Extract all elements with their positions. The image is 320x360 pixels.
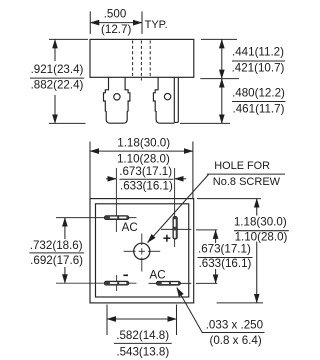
svg-text:.732(18.6): .732(18.6) <box>30 239 83 252</box>
dimension .732/.692 (left, tab row spacing) <box>29 218 84 284</box>
svg-text:1.18(30.0): 1.18(30.0) <box>234 215 287 228</box>
centerline tab TR horizontal <box>161 228 191 230</box>
terminal T3 (rear tab, edge-on) <box>174 77 178 122</box>
dimension .582/.543 (bottom) <box>107 305 177 344</box>
svg-text:AC: AC <box>150 269 166 282</box>
inner case outline <box>96 204 189 297</box>
terminal T2 hole <box>164 93 170 99</box>
mounting hole centerlines <box>124 234 161 272</box>
plus label <box>163 235 170 242</box>
svg-text:TYP.: TYP. <box>145 19 168 31</box>
svg-text:.500: .500 <box>104 7 127 20</box>
leader: HOLE FOR No.8 SCREW <box>148 174 285 243</box>
terminal T2 (right faston tab, front) <box>153 77 174 123</box>
svg-text:.921(23.4): .921(23.4) <box>31 63 84 76</box>
centerline tab TL vertical / ext for .673 top <box>115 168 117 232</box>
svg-text:.882(22.4): .882(22.4) <box>31 79 84 92</box>
terminal T1 hole <box>114 94 120 100</box>
svg-text:AC: AC <box>122 221 138 234</box>
svg-text:.421(10.7): .421(10.7) <box>232 62 285 75</box>
mounting hole <box>134 243 150 259</box>
centerline tab TL horizontal <box>56 217 137 219</box>
minus label <box>123 274 128 276</box>
svg-text:.673(17.1): .673(17.1) <box>198 243 251 256</box>
terminal T1 (left faston tab, front) <box>104 77 130 123</box>
svg-text:.582(14.8): .582(14.8) <box>116 329 169 342</box>
dimension .921/.882 (left height) <box>30 39 88 123</box>
svg-text:.692(17.6): .692(17.6) <box>30 254 83 267</box>
svg-text:(12.7): (12.7) <box>101 23 131 36</box>
body outline <box>90 39 194 77</box>
centerline tab BC horizontal / ext for .673 right <box>149 282 192 284</box>
dimension .033 x .250 (tab size) with leader <box>177 288 265 333</box>
dimension 1.18/1.10 (top width) <box>90 142 193 199</box>
svg-text:.480(12.2): .480(12.2) <box>232 86 285 99</box>
hidden mounting hole (dashed lines) <box>133 41 151 81</box>
centerline tab TR vertical / ext for .673 top <box>174 168 176 247</box>
svg-text:.543(13.8): .543(13.8) <box>116 346 169 359</box>
dimension .500 (12.7) TYP. <box>90 11 142 34</box>
tab BC (AC) <box>156 281 180 285</box>
svg-text:1.10(28.0): 1.10(28.0) <box>235 231 288 244</box>
tab TL (AC) <box>104 216 129 220</box>
dimension 1.18/1.10 (right, height) <box>197 199 289 303</box>
svg-text:.633(16.1): .633(16.1) <box>120 179 173 192</box>
svg-text:1.18(30.0): 1.18(30.0) <box>117 136 170 149</box>
centerline tab BL horizontal / ext for .732 <box>56 282 137 284</box>
svg-text:.633(16.1): .633(16.1) <box>199 257 252 270</box>
svg-text:.673(17.1): .673(17.1) <box>119 165 172 178</box>
svg-text:1.10(28.0): 1.10(28.0) <box>117 153 170 166</box>
tab BL (-) <box>104 281 129 285</box>
centerlines of tabs <box>56 168 217 291</box>
svg-text:.033 x .250: .033 x .250 <box>206 319 263 332</box>
dimension .441/.421 (body height, right) <box>180 39 286 123</box>
tab TR (+) vertical <box>173 216 177 239</box>
outer case outline <box>90 199 194 303</box>
svg-text:.441(11.2): .441(11.2) <box>232 45 284 58</box>
centerline tab BL vertical <box>116 275 118 291</box>
svg-text:No.8 SCREW: No.8 SCREW <box>213 176 281 188</box>
svg-text:.461(11.7): .461(11.7) <box>233 102 285 115</box>
dimension .673/.633 (right, vertical) <box>198 230 253 284</box>
dimension .673/.633 (top, tab spacing) <box>106 178 186 180</box>
svg-text:(0.8 x 6.4): (0.8 x 6.4) <box>209 334 261 347</box>
svg-text:HOLE FOR: HOLE FOR <box>214 160 270 172</box>
